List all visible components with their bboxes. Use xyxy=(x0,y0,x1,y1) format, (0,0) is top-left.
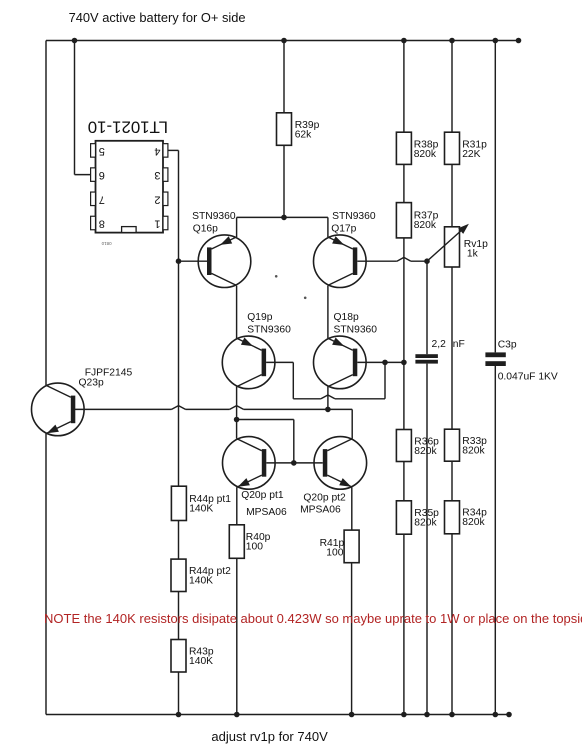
svg-text:820k: 820k xyxy=(414,149,437,160)
svg-text:2,2: 2,2 xyxy=(432,339,447,350)
svg-text:7: 7 xyxy=(99,193,105,205)
svg-text:C3p: C3p xyxy=(498,340,517,351)
svg-text:4: 4 xyxy=(154,145,160,157)
svg-text:adjust rv1p for 740V: adjust rv1p for 740V xyxy=(211,729,328,744)
svg-text:nF: nF xyxy=(453,339,465,350)
svg-text:62k: 62k xyxy=(295,129,312,140)
svg-text:MPSA06: MPSA06 xyxy=(246,507,287,518)
svg-text:1: 1 xyxy=(154,218,160,230)
svg-text:2: 2 xyxy=(154,193,160,205)
svg-text:820k: 820k xyxy=(414,220,437,231)
svg-text:LT1021-10: LT1021-10 xyxy=(88,118,168,136)
svg-text:6: 6 xyxy=(99,169,105,181)
svg-text:740V active battery for O+ sid: 740V active battery for O+ side xyxy=(69,10,246,25)
svg-text:Q18p: Q18p xyxy=(334,312,359,323)
svg-text:0810: 0810 xyxy=(101,241,112,246)
svg-text:0.047uF 1KV: 0.047uF 1KV xyxy=(498,372,558,383)
svg-text:STN9360: STN9360 xyxy=(247,324,291,335)
svg-text:NOTE the 140K resistors disipa: NOTE the 140K resistors disipate about 0… xyxy=(44,611,582,626)
svg-text:820k: 820k xyxy=(462,445,485,456)
svg-text:1k: 1k xyxy=(467,248,479,259)
svg-text:140K: 140K xyxy=(189,656,213,667)
svg-text:STN9360: STN9360 xyxy=(332,211,376,222)
svg-text:140K: 140K xyxy=(189,504,213,515)
svg-text:5: 5 xyxy=(99,145,105,157)
svg-text:820k: 820k xyxy=(414,518,437,529)
svg-text:820k: 820k xyxy=(462,517,485,528)
svg-text:140K: 140K xyxy=(189,575,213,586)
svg-text:3: 3 xyxy=(154,169,160,181)
svg-text:Q17p: Q17p xyxy=(331,224,356,235)
svg-text:8: 8 xyxy=(99,218,105,230)
svg-text:STN9360: STN9360 xyxy=(192,211,236,222)
svg-text:Q19p: Q19p xyxy=(247,312,272,323)
svg-text:Q23p: Q23p xyxy=(79,378,104,389)
svg-text:MPSA06: MPSA06 xyxy=(300,505,341,516)
svg-text:22K: 22K xyxy=(462,149,480,160)
svg-text:100: 100 xyxy=(246,542,263,553)
svg-text:Q16p: Q16p xyxy=(193,223,218,234)
svg-text:820k: 820k xyxy=(414,446,437,457)
svg-text:Q20p pt2: Q20p pt2 xyxy=(303,492,346,503)
svg-text:STN9360: STN9360 xyxy=(334,324,378,335)
svg-text:100: 100 xyxy=(326,547,343,558)
svg-text:Q20p pt1: Q20p pt1 xyxy=(241,490,284,501)
